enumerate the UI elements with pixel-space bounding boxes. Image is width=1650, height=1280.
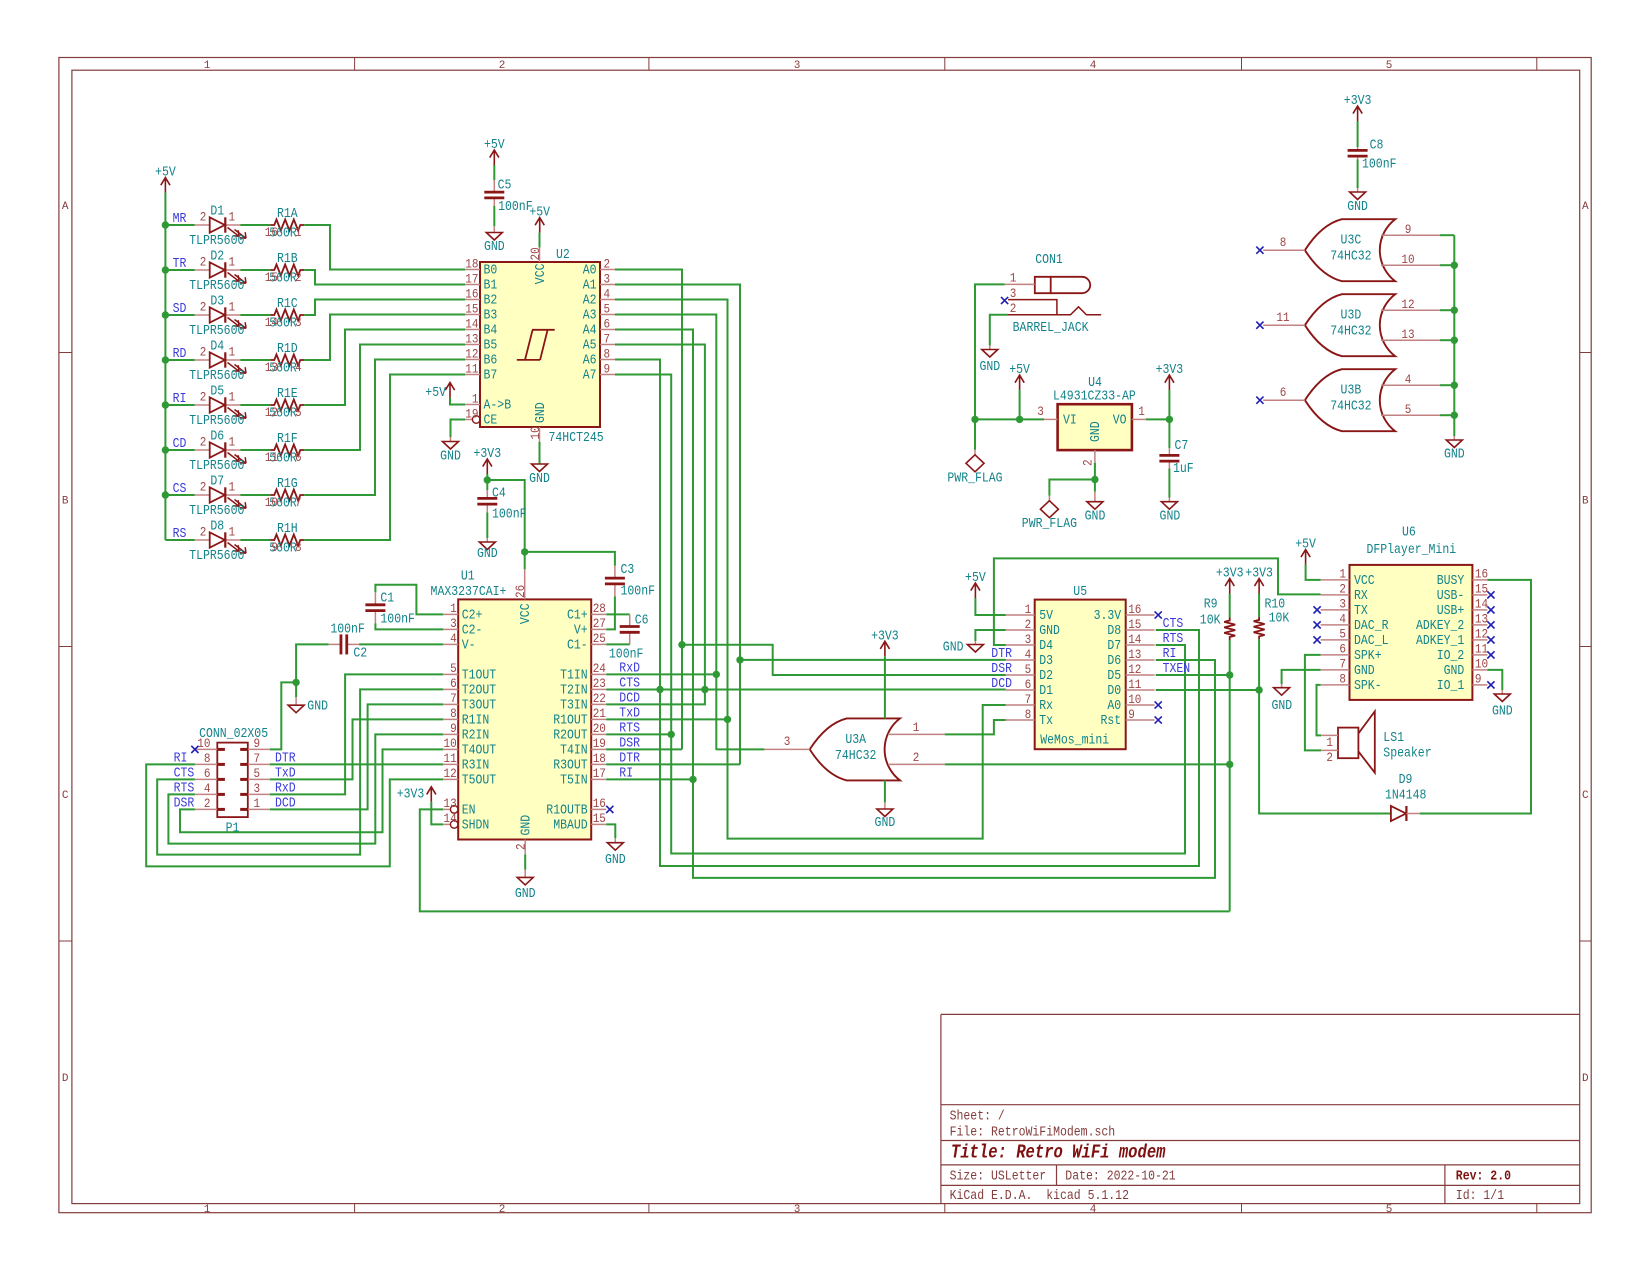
- svg-text:R1B: R1B: [277, 252, 298, 267]
- svg-text:15: 15: [593, 811, 606, 826]
- svg-text:L4931CZ33-AP: L4931CZ33-AP: [1053, 390, 1136, 405]
- wire U3A pin1 to U5 Tx: [945, 720, 1006, 734]
- svg-text:2: 2: [913, 750, 920, 765]
- power flag PWR_FLAG 2: [1040, 496, 1058, 518]
- wire TxD P1 to U1 R1IN: [270, 719, 443, 779]
- wire U4 GND to PWR_FLAG 2: [1049, 480, 1095, 496]
- svg-text:TLPR5600: TLPR5600: [189, 549, 244, 564]
- svg-text:5: 5: [1339, 627, 1346, 642]
- svg-text:7: 7: [1025, 692, 1032, 707]
- svg-text:+3V3: +3V3: [474, 447, 502, 462]
- svg-text:9: 9: [271, 540, 278, 555]
- pin 1 U3A input: [888, 733, 945, 735]
- svg-text:6: 6: [604, 316, 611, 331]
- junction junction RxD row: [713, 671, 720, 678]
- svg-text:DCD: DCD: [991, 677, 1012, 692]
- svg-text:5: 5: [604, 301, 611, 316]
- svg-text:D7: D7: [1107, 639, 1121, 654]
- svg-text:1: 1: [229, 435, 236, 450]
- svg-text:4: 4: [204, 781, 211, 796]
- pin 6 U1 T2OUT: [443, 688, 458, 690]
- wire U2 A->B to +5V: [450, 398, 465, 405]
- svg-text:+3V3: +3V3: [871, 629, 899, 644]
- svg-text:USB+: USB+: [1437, 604, 1465, 619]
- svg-text:15: 15: [1475, 582, 1488, 597]
- svg-text:R1E: R1E: [277, 387, 298, 402]
- svg-text:LS1: LS1: [1383, 731, 1404, 746]
- wire R10 top lead: [1258, 594, 1260, 617]
- svg-text:100nF: 100nF: [621, 585, 656, 600]
- wire U1 T2IN CTS row: [606, 689, 660, 691]
- svg-text:74HC32: 74HC32: [1330, 400, 1371, 415]
- pin 9 P1: [248, 748, 270, 750]
- wire RS diode to resistor: [240, 539, 270, 541]
- no-connect U3B output: [1256, 397, 1263, 404]
- wire U5 D0 wire: [1156, 689, 1259, 691]
- wire MR diode to resistor: [240, 224, 270, 226]
- wire RTS P1 to U1 R2IN: [168, 734, 443, 843]
- svg-text:3: 3: [604, 271, 611, 286]
- wire C4 bottom: [486, 513, 488, 539]
- svg-text:DFPlayer_Mini: DFPlayer_Mini: [1366, 542, 1456, 558]
- svg-text:BUSY: BUSY: [1437, 574, 1465, 589]
- svg-text:4: 4: [1090, 60, 1097, 72]
- svg-text:16: 16: [465, 286, 478, 301]
- junction junction gate gnd rail: [1451, 337, 1458, 344]
- pin 6 P1: [195, 778, 217, 780]
- pin 2 U6 RX: [1321, 594, 1350, 596]
- wire DSR spur to U5 D2: [682, 645, 1006, 675]
- svg-text:C: C: [1582, 790, 1589, 802]
- wire U6 SPK- to LS1: [1317, 685, 1322, 736]
- wire U1 GND wire: [524, 855, 526, 870]
- ground C5: [486, 226, 502, 240]
- svg-text:GND: GND: [515, 887, 536, 902]
- svg-text:74HC32: 74HC32: [835, 749, 876, 764]
- pin 14 U5 D7: [1126, 644, 1155, 646]
- pin 3 P1 inner bar: [240, 793, 248, 796]
- svg-text:GND: GND: [307, 700, 328, 715]
- svg-text:GND: GND: [1444, 664, 1465, 679]
- pin 3 U5 D4: [1006, 644, 1035, 646]
- wire RD LED row: [165, 359, 194, 361]
- wire R9 top lead: [1229, 594, 1231, 618]
- wire +5V to U4 VI rail: [975, 418, 1044, 420]
- wire gate ground rail: [1453, 235, 1455, 436]
- no-connect CON1 pin 3: [1001, 297, 1008, 304]
- svg-text:B2: B2: [484, 294, 498, 309]
- pin 1 U1 C2+: [443, 613, 458, 615]
- resistor R1D 560R: [270, 355, 304, 366]
- wire C8 bottom: [1357, 160, 1359, 189]
- svg-text:2: 2: [499, 1204, 506, 1216]
- svg-text:21: 21: [593, 706, 606, 721]
- wire C4 top lead: [486, 480, 488, 490]
- svg-text:3: 3: [295, 315, 302, 330]
- LED D5 TLPR5600: [195, 397, 246, 418]
- frame column numbers: [204, 60, 1393, 1216]
- ground CON1: [982, 346, 998, 358]
- svg-text:C4: C4: [492, 487, 506, 502]
- wire CON1 pin2 to ground: [990, 315, 1008, 346]
- svg-text:13: 13: [1128, 647, 1141, 662]
- wire U1 R3OUT DTR row: [606, 763, 740, 765]
- svg-text:1: 1: [1010, 271, 1017, 286]
- svg-text:ADKEY_1: ADKEY_1: [1416, 634, 1464, 649]
- pin 4 U5 D3: [1006, 659, 1035, 661]
- svg-text:13: 13: [444, 796, 457, 811]
- wire U1 SHDN to +3V3: [431, 802, 443, 825]
- svg-text:R1OUT: R1OUT: [553, 713, 588, 728]
- svg-text:R1IN: R1IN: [462, 713, 490, 728]
- pin 10 U6 GND: [1472, 669, 1487, 671]
- svg-text:100nF: 100nF: [1362, 158, 1397, 173]
- pin 5 U5 D2: [1006, 674, 1035, 676]
- svg-text:T1IN: T1IN: [560, 668, 588, 683]
- svg-text:P1: P1: [226, 822, 240, 837]
- wire D9 to U6 BUSY: [1420, 580, 1531, 814]
- svg-text:GND: GND: [440, 450, 461, 465]
- svg-text:1: 1: [1025, 602, 1032, 617]
- svg-text:DAC_L: DAC_L: [1354, 634, 1389, 649]
- wire MR to U2 B0: [304, 225, 465, 270]
- wire C2 right to U1 V-: [359, 643, 443, 645]
- wire U5 5V supply: [975, 598, 1005, 615]
- svg-text:100nF: 100nF: [498, 200, 532, 215]
- wire U4 VO to +3V3: [1146, 418, 1170, 420]
- pin 7 U2 A5: [600, 344, 615, 346]
- pin 6 U3B output: [1263, 399, 1305, 401]
- wire MR LED row: [165, 224, 194, 226]
- svg-text:C7: C7: [1175, 439, 1189, 454]
- wire U1 EN to TXEN rail: [420, 809, 1230, 911]
- junction junction DSR spur: [678, 641, 685, 648]
- op-amp U2 74HCT245 body: [480, 262, 600, 427]
- svg-text:C1+: C1+: [567, 608, 588, 623]
- wire U3B input 5 to gnd rail: [1440, 414, 1454, 416]
- svg-text:9: 9: [604, 361, 611, 376]
- svg-text:C2-: C2-: [462, 623, 483, 638]
- resistor R10 10K: [1254, 617, 1265, 640]
- svg-text:+5V: +5V: [155, 166, 176, 181]
- pin 6 U5 D1: [1006, 689, 1035, 691]
- no-connect U6 left pin: [1314, 621, 1321, 628]
- svg-text:SPK-: SPK-: [1354, 679, 1382, 694]
- wire DTR spur to U5 D3: [740, 659, 1006, 661]
- svg-text:Tx: Tx: [1039, 714, 1053, 729]
- wire +3V3 arrow lead: [1168, 390, 1170, 419]
- wire U3C input 10 to gnd rail: [1440, 264, 1454, 266]
- svg-text:USB-: USB-: [1437, 589, 1465, 604]
- svg-text:B0: B0: [484, 264, 498, 279]
- pin 9 U5 Rst: [1126, 719, 1155, 721]
- no-connect U3D output: [1256, 322, 1263, 329]
- power symbol +5V (C5): [490, 150, 499, 165]
- wire U5 GND wire: [975, 630, 1005, 641]
- pin 28 U1 C1+: [591, 613, 606, 615]
- svg-text:3: 3: [794, 1204, 801, 1216]
- svg-text:U5: U5: [1073, 585, 1087, 600]
- pin 11 U3D output: [1263, 324, 1305, 326]
- pin 9 U6 IO_1: [1472, 684, 1487, 686]
- svg-text:VO: VO: [1113, 414, 1127, 429]
- wire TR diode to resistor: [240, 269, 270, 271]
- power symbol +5V (U4 VI): [1015, 375, 1024, 390]
- capacitor C3 100nF: [605, 566, 625, 597]
- svg-text:9: 9: [1128, 707, 1135, 722]
- svg-text:B: B: [1582, 496, 1589, 508]
- pin 2 U3A input: [888, 763, 945, 765]
- svg-text:3: 3: [794, 60, 801, 72]
- svg-text:1: 1: [229, 525, 236, 540]
- junction junction LED rail row 6: [162, 446, 169, 453]
- junction junction LED rail row 1: [162, 221, 169, 228]
- svg-text:C2: C2: [353, 647, 367, 662]
- svg-text:8: 8: [1280, 235, 1287, 250]
- pin 5 P1 inner bar: [240, 778, 248, 781]
- pin 26 U1 VCC: [524, 569, 526, 599]
- no-connect U6 right pin: [1487, 681, 1494, 688]
- svg-text:PWR_FLAG: PWR_FLAG: [1022, 517, 1077, 532]
- pin 5 P1: [248, 778, 270, 780]
- wire CON1 pin1 to +5V rail: [975, 284, 1005, 419]
- pin 22 U1 T3IN: [591, 703, 606, 705]
- svg-text:15: 15: [465, 301, 478, 316]
- svg-text:T3IN: T3IN: [560, 698, 588, 713]
- wire CTS P1 to U1 T2OUT: [157, 689, 443, 854]
- LED D3 TLPR5600: [195, 307, 246, 328]
- wire U3B input 4 to gnd rail: [1440, 384, 1454, 386]
- op-amp U1 MAX3237CAI+ body: [458, 599, 591, 839]
- svg-text:R1OUTB: R1OUTB: [546, 803, 587, 818]
- wire U3D input 12 to gnd rail: [1440, 309, 1454, 311]
- svg-text:R3OUT: R3OUT: [553, 758, 588, 773]
- pin 2 P1: [195, 808, 217, 810]
- svg-text:B7: B7: [484, 369, 498, 384]
- diode D9 1N4148: [1391, 806, 1420, 821]
- pin 10 P1: [195, 748, 217, 750]
- svg-text:74HC32: 74HC32: [1330, 250, 1371, 265]
- wire U1 MBAUD to ground: [606, 824, 615, 838]
- ground U6 pin10: [1494, 690, 1510, 702]
- svg-text:TLPR5600: TLPR5600: [189, 234, 244, 249]
- svg-text:GND: GND: [520, 815, 535, 836]
- wire U3C input 9 to gnd rail: [1440, 234, 1454, 236]
- svg-text:16: 16: [265, 225, 278, 240]
- pin 4 U2 A2: [600, 299, 615, 301]
- svg-text:GND: GND: [1444, 448, 1465, 463]
- resistor R1A 560R: [270, 220, 304, 231]
- svg-text:A->B: A->B: [484, 399, 512, 414]
- wire U2 A3 to RxD column: [615, 315, 716, 751]
- svg-text:R1C: R1C: [277, 297, 298, 312]
- svg-text:5: 5: [1386, 60, 1393, 72]
- pin 3 U4 VI: [1044, 418, 1058, 420]
- svg-text:10: 10: [197, 736, 210, 751]
- wire DCD P1 to U1 T3OUT: [270, 704, 443, 809]
- svg-text:B4: B4: [484, 324, 498, 339]
- pin 5 U3B input: [1381, 414, 1440, 416]
- svg-text:RTS: RTS: [1163, 632, 1184, 647]
- pin 5 U2 A3: [600, 314, 615, 316]
- svg-text:BARREL_JACK: BARREL_JACK: [1013, 321, 1089, 336]
- connector P1 CONN_02X05 body: [217, 743, 248, 818]
- svg-text:U3B: U3B: [1341, 384, 1362, 399]
- svg-text:10: 10: [1401, 252, 1414, 267]
- svg-text:12: 12: [1475, 627, 1488, 642]
- wire CS LED row: [165, 494, 194, 496]
- capacitor C7 1uF: [1159, 448, 1179, 469]
- svg-text:V-: V-: [462, 638, 476, 653]
- svg-text:14: 14: [265, 315, 278, 330]
- svg-text:2: 2: [604, 256, 611, 271]
- svg-text:VCC: VCC: [1354, 574, 1375, 589]
- svg-text:PWR_FLAG: PWR_FLAG: [947, 472, 1002, 487]
- power symbol +5V (U2 VCC): [535, 218, 544, 233]
- wire RxD P1 to U1 T1OUT: [270, 674, 443, 794]
- svg-text:R1A: R1A: [277, 207, 298, 222]
- pin 7 P1 inner bar: [240, 763, 248, 766]
- junction junction TXEN U5: [1226, 671, 1233, 678]
- module U6 DFPlayer_Mini body: [1350, 565, 1473, 700]
- no-connect U6 right pin: [1487, 606, 1494, 613]
- svg-text:2: 2: [200, 390, 207, 405]
- wire SD diode to resistor: [240, 314, 270, 316]
- svg-text:GND: GND: [605, 853, 626, 868]
- svg-text:20: 20: [593, 721, 606, 736]
- ground C8: [1350, 188, 1366, 200]
- svg-text:R10: R10: [1265, 598, 1286, 613]
- wire RI LED row: [165, 404, 194, 406]
- power flag PWR_FLAG 1: [966, 450, 984, 472]
- capacitor C6 100nF: [620, 614, 640, 644]
- wire +3V3 arrow to junction: [486, 474, 488, 480]
- LED D1 TLPR5600: [195, 217, 246, 238]
- wire U1 T5IN RI row: [606, 778, 693, 780]
- svg-text:MBAUD: MBAUD: [553, 818, 588, 833]
- svg-text:4: 4: [1405, 372, 1412, 387]
- svg-text:2: 2: [1080, 459, 1095, 466]
- wire TR LED row: [165, 269, 194, 271]
- svg-text:8: 8: [604, 346, 611, 361]
- pin 8 U5 Tx: [1006, 719, 1035, 721]
- svg-text:11: 11: [465, 361, 478, 376]
- svg-text:+3V3: +3V3: [1216, 567, 1244, 582]
- junction junction RI row: [689, 776, 696, 783]
- svg-text:T2OUT: T2OUT: [462, 683, 497, 698]
- svg-text:Date: 2022-10-21: Date: 2022-10-21: [1065, 1170, 1175, 1185]
- wire U5 D5 TXEN wire: [1156, 674, 1230, 676]
- pin 17 U1 T5IN: [591, 778, 606, 780]
- pin 12 U2 B6: [465, 359, 480, 361]
- svg-text:3: 3: [1010, 286, 1017, 301]
- pin 1 U2 A->B: [465, 404, 480, 406]
- svg-text:11: 11: [1128, 677, 1141, 692]
- wire U3A vcc lead: [884, 656, 886, 718]
- pin 17 U2 B1: [465, 284, 480, 286]
- svg-text:2: 2: [200, 255, 207, 270]
- svg-text:1: 1: [229, 345, 236, 360]
- svg-text:C6: C6: [635, 614, 649, 629]
- ground U4: [1087, 492, 1103, 510]
- svg-text:B3: B3: [484, 309, 498, 324]
- svg-text:5: 5: [295, 405, 302, 420]
- capacitor C4 100nF: [477, 490, 497, 513]
- svg-text:100nF: 100nF: [492, 508, 527, 523]
- svg-text:1: 1: [204, 60, 211, 72]
- pin 2 P1 inner bar: [217, 808, 225, 811]
- svg-text:2: 2: [200, 525, 207, 540]
- svg-text:100nF: 100nF: [609, 648, 644, 663]
- svg-text:D: D: [1582, 1073, 1589, 1085]
- svg-text:D0: D0: [1107, 684, 1121, 699]
- power symbol +3V3 (C4): [483, 459, 492, 474]
- junction junction gate gnd rail: [1451, 412, 1458, 419]
- svg-text:TLPR5600: TLPR5600: [189, 414, 244, 429]
- ground U5: [967, 641, 983, 652]
- svg-text:D9: D9: [1399, 773, 1413, 788]
- pin 10 U3C input: [1381, 264, 1440, 266]
- svg-text:D6: D6: [210, 430, 224, 445]
- no-connect U5 3.3V: [1155, 611, 1162, 618]
- wire U1 C1+ to C6 top: [606, 613, 630, 615]
- pin 7 U6 GND: [1321, 669, 1350, 671]
- pin 10 U2 GND: [539, 427, 541, 442]
- pin 6 P1 inner bar: [217, 778, 225, 781]
- no-connect U1 R1OUTB: [606, 806, 613, 813]
- svg-text:13: 13: [1475, 612, 1488, 627]
- svg-text:DTR: DTR: [991, 647, 1012, 662]
- svg-text:1: 1: [204, 1204, 211, 1216]
- svg-text:A7: A7: [583, 369, 597, 384]
- wire U1 T1IN RxD row: [606, 673, 716, 675]
- svg-text:11: 11: [1276, 310, 1289, 325]
- svg-text:TLPR5600: TLPR5600: [189, 504, 244, 519]
- wire R9 bottom TXEN rail: [1229, 640, 1231, 911]
- wire U3A pin2 to TXEN rail: [945, 763, 1230, 765]
- svg-text:T4IN: T4IN: [560, 743, 588, 758]
- svg-text:1: 1: [450, 601, 457, 616]
- power symbol +3V3 (C8): [1353, 106, 1362, 121]
- wire RD to U2 B3: [304, 315, 465, 361]
- svg-text:16: 16: [593, 796, 606, 811]
- pin 10 P1 inner bar: [217, 748, 225, 751]
- wire U3D input 13 to gnd rail: [1440, 339, 1454, 341]
- svg-text:GND: GND: [1492, 705, 1513, 720]
- wire CS to U2 B6: [304, 360, 465, 496]
- wire RD diode to resistor: [240, 359, 270, 361]
- wire U4 GND down: [1094, 480, 1096, 492]
- pin 23 U1 T2IN: [591, 688, 606, 690]
- svg-text:VI: VI: [1063, 414, 1077, 429]
- svg-text:22: 22: [593, 691, 606, 706]
- svg-text:17: 17: [465, 271, 478, 286]
- wire DTR P1 to U1 R3IN: [270, 763, 443, 765]
- svg-text:U2: U2: [556, 248, 570, 263]
- junction junction DTR spur: [736, 656, 743, 663]
- pin 25 U1 C1-: [591, 643, 606, 645]
- svg-text:+3V3: +3V3: [1156, 363, 1184, 378]
- svg-text:Rev: 2.0: Rev: 2.0: [1456, 1170, 1511, 1185]
- svg-text:6: 6: [295, 450, 302, 465]
- svg-text:U1: U1: [461, 570, 475, 585]
- wire U4 GND to junction: [1094, 463, 1096, 480]
- pin 1 P1 inner bar: [240, 808, 248, 811]
- svg-text:2: 2: [200, 480, 207, 495]
- wire RI to U2 B4: [304, 330, 465, 406]
- svg-text:+3V3: +3V3: [1245, 567, 1273, 582]
- svg-text:R9: R9: [1204, 598, 1218, 613]
